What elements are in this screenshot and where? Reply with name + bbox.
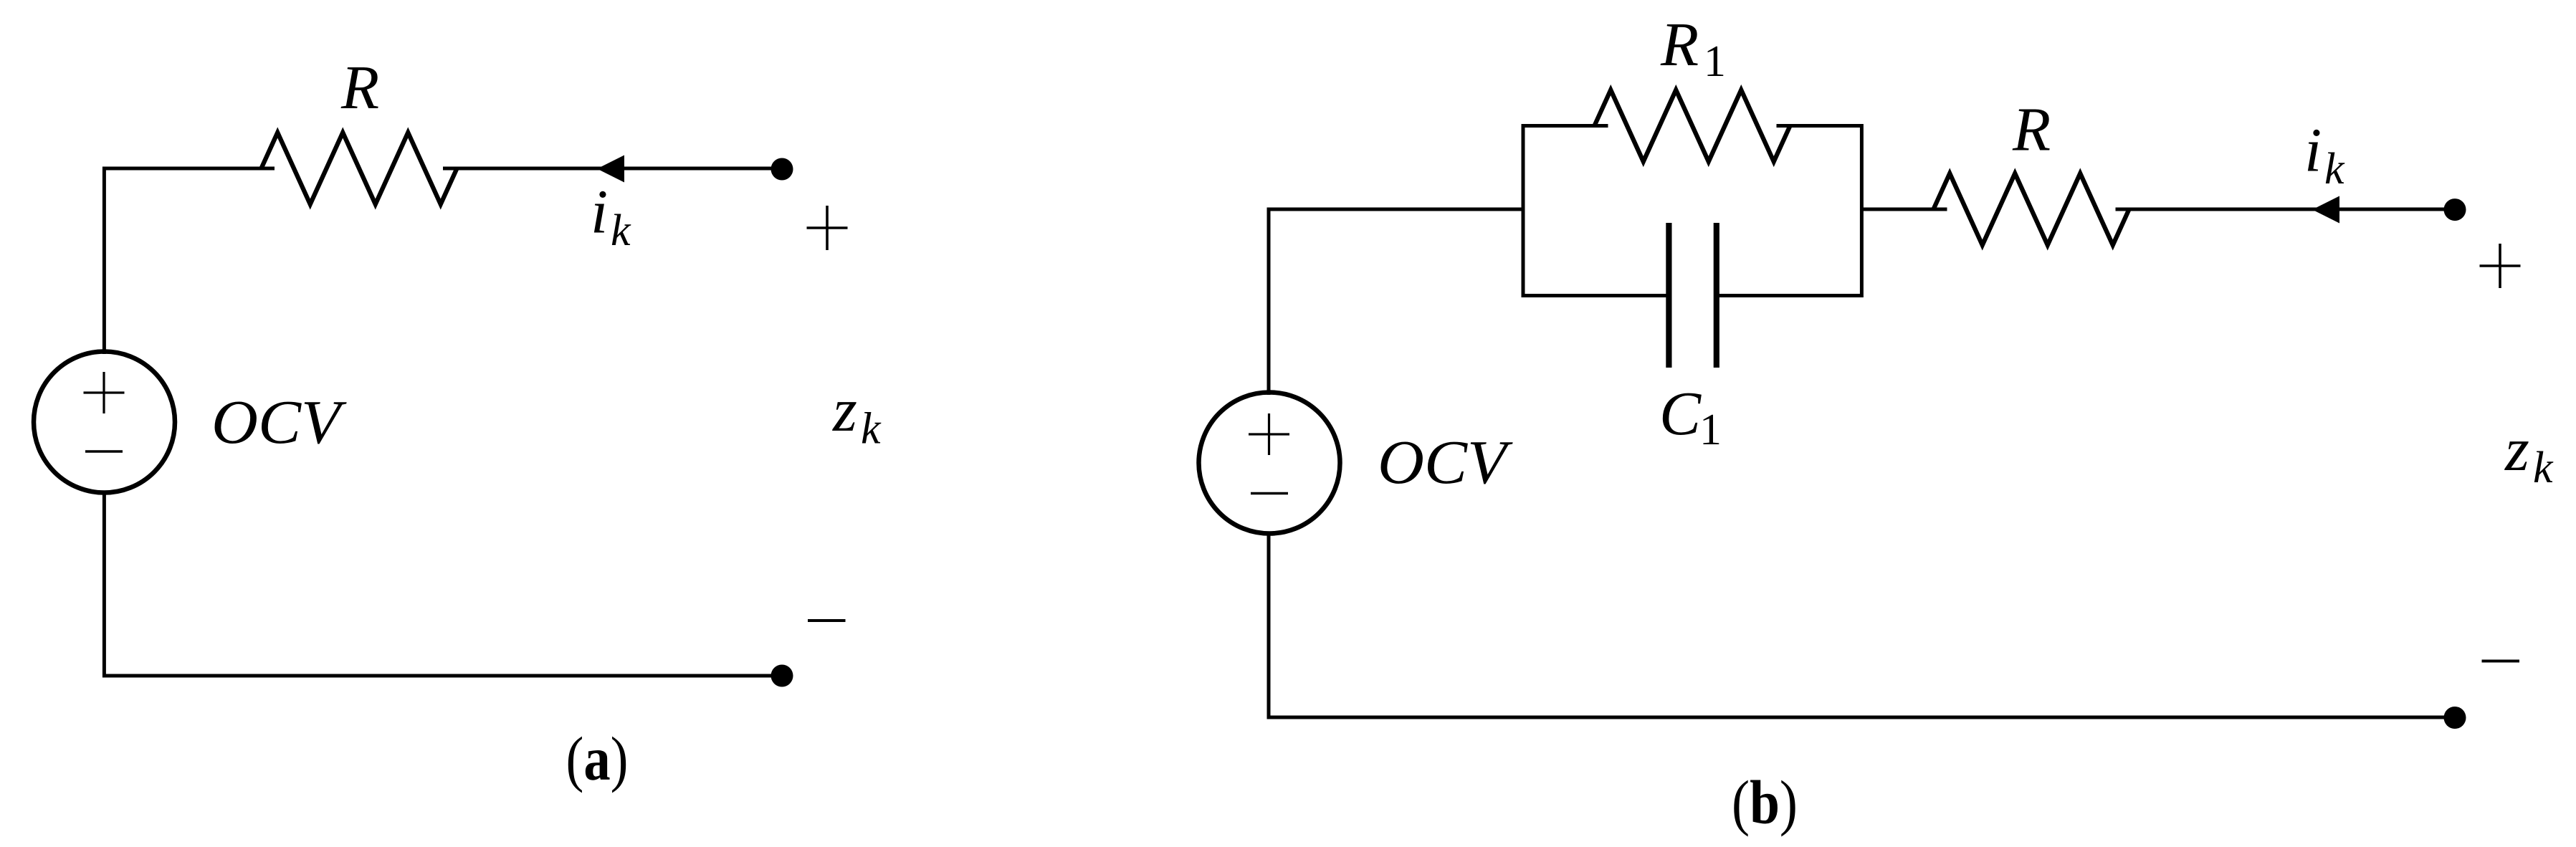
svg-text:OCV: OCV [211, 387, 347, 456]
plus sign inside source (a) [84, 372, 125, 413]
svg-text:R: R [340, 52, 379, 122]
node top terminal (b) [2444, 198, 2466, 221]
plus sign inside source (b) [1249, 413, 1289, 455]
wire top-right segment (a) [443, 167, 782, 171]
voltage source OCV circle (a) [34, 352, 175, 493]
svg-text:1: 1 [1699, 406, 1722, 454]
resistor R1 (b) [1595, 90, 1790, 162]
svg-text:z: z [832, 375, 857, 444]
label i_k (b) [2304, 115, 2345, 194]
svg-text:R: R [2012, 95, 2051, 164]
label (b) [1732, 767, 1798, 837]
node bottom terminal (b) [2444, 707, 2466, 729]
svg-text:k: k [611, 206, 631, 255]
current arrow i_k (a) [597, 155, 624, 183]
svg-text:1: 1 [1704, 37, 1726, 86]
wire right segment (b) [2116, 208, 2456, 211]
capacitor C1 left plate (b) [1666, 223, 1671, 368]
label z_k (b) [2504, 414, 2554, 492]
svg-text:k: k [861, 405, 882, 454]
svg-text:z: z [2504, 414, 2529, 484]
plus terminal sign (a) [807, 206, 848, 250]
svg-text:(b): (b) [1732, 767, 1798, 837]
label OCV (b) [1378, 427, 1513, 497]
minus terminal sign (a) [808, 619, 846, 622]
label R (b) [2012, 95, 2051, 164]
wire left vertical + top-left segment (a) [104, 168, 275, 354]
minus sign inside source (b) [1251, 492, 1288, 495]
label (a) [566, 724, 629, 793]
minus terminal sign (b) [2482, 660, 2520, 663]
capacitor C1 right plate (b) [1714, 223, 1719, 368]
minus sign inside source (a) [85, 450, 123, 453]
svg-text:R: R [1660, 9, 1699, 79]
svg-text:i: i [2304, 115, 2322, 185]
label z_k (a) [832, 375, 882, 454]
voltage source OCV circle (b) [1199, 393, 1340, 534]
svg-text:i: i [591, 177, 608, 247]
svg-text:k: k [2533, 444, 2554, 492]
current arrow i_k (b) [2312, 196, 2339, 224]
wire bottom (b) [1269, 532, 2455, 717]
wire from box to resistor R (b) [1861, 208, 1947, 211]
svg-text:k: k [2324, 145, 2345, 193]
resistor R (b) [1934, 173, 2129, 245]
label C1 (b) [1659, 378, 1722, 454]
node top terminal (a) [771, 158, 793, 181]
svg-text:C: C [1659, 378, 1702, 448]
label i_k (a) [591, 177, 631, 256]
svg-text:(a): (a) [566, 724, 629, 793]
wire left vertical + top-left segment (b) [1269, 209, 1523, 395]
parallel RC box frame (b) [1523, 126, 1861, 296]
svg-text:OCV: OCV [1378, 427, 1513, 497]
node bottom terminal (a) [771, 665, 793, 687]
label R1 (b) [1660, 9, 1726, 86]
plus terminal sign (b) [2480, 244, 2521, 288]
resistor R (a) [262, 133, 457, 204]
label R (a) [340, 52, 379, 122]
label OCV (a) [211, 387, 347, 456]
wire bottom (a) [104, 491, 782, 676]
